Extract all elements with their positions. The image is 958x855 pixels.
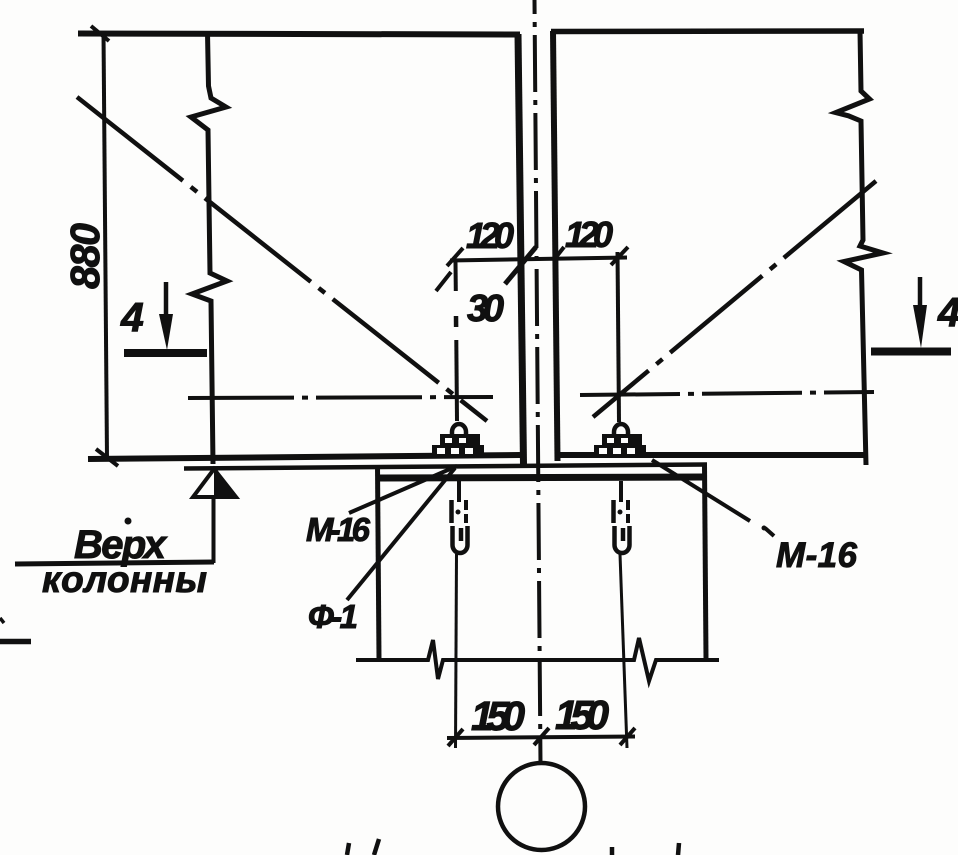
svg-text:880: 880 bbox=[62, 223, 108, 289]
anchor bolt left extension line bbox=[456, 554, 457, 748]
anchor bolt left axis above nut bbox=[454, 262, 458, 291]
svg-text:4: 4 bbox=[120, 294, 144, 340]
weld symbol left arrow bbox=[164, 282, 169, 318]
node central member left edge bbox=[518, 34, 524, 465]
anchor bolt left hidden shank bbox=[449, 500, 454, 523]
svg-text:150: 150 bbox=[471, 693, 525, 739]
dimension 30 tick bbox=[436, 272, 451, 291]
leader М-16 right bbox=[652, 460, 750, 521]
dimension 150 left tick bbox=[448, 729, 463, 746]
node left column edge with break symbols bbox=[191, 33, 227, 464]
node right column edge with break symbols bbox=[836, 31, 883, 465]
partial caption glyph 2 bbox=[374, 839, 379, 855]
node column below plate left edge bbox=[378, 466, 380, 659]
node column below plate right edge bbox=[705, 465, 707, 659]
dimension 120 right tick bbox=[611, 247, 628, 265]
svg-text:М-16: М-16 bbox=[776, 536, 858, 575]
node horizontal axis chain line left bbox=[188, 397, 493, 398]
wire beam bottom flange left bbox=[88, 455, 520, 459]
wire column bottom line with break symbols bbox=[356, 638, 719, 681]
node diagonal brace axis right bbox=[593, 181, 876, 417]
dimension 120 center-right tick bbox=[553, 247, 564, 261]
dimension 150 right tick bbox=[620, 728, 635, 745]
level mark triangle bbox=[193, 469, 236, 497]
level mark vertical line bbox=[212, 497, 216, 563]
leader Ф-1 bbox=[347, 468, 455, 600]
node central member right edge bbox=[553, 31, 558, 461]
svg-text:4: 4 bbox=[937, 289, 958, 335]
svg-text:колонны: колонны bbox=[42, 559, 207, 600]
dimension 150 center tick bbox=[534, 728, 549, 745]
wire base plate bottom line bbox=[376, 477, 705, 478]
dimension 880 line bbox=[104, 33, 108, 459]
anchor bolt left nut stack bbox=[432, 424, 484, 457]
partial mark lower left tick bbox=[0, 618, 4, 623]
wire beam bottom flange right bbox=[558, 452, 866, 458]
wire beam bottom flange second line bbox=[184, 465, 707, 469]
partial caption glyph 4 bbox=[678, 843, 679, 855]
anchor bolt right extension line bbox=[620, 554, 627, 748]
anchor bolt right nut stack bbox=[594, 424, 646, 457]
wire top beam line left bbox=[78, 34, 520, 35]
stray dot bbox=[762, 526, 767, 531]
svg-text:М-16: М-16 bbox=[306, 511, 371, 548]
dimension 150 150 line bbox=[447, 737, 635, 739]
level mark horizontal line bbox=[15, 562, 214, 564]
partial caption glyph 3 bbox=[610, 847, 615, 855]
dimension 120 120 line bbox=[450, 258, 627, 261]
leader М-16 left bbox=[349, 466, 457, 513]
accent dot over е bbox=[125, 518, 132, 525]
dimension 880 bottom tick bbox=[96, 449, 118, 466]
anchor bolt right extension above nut bbox=[618, 252, 620, 422]
section mark circle bbox=[498, 763, 585, 850]
anchor bolt right hidden shank bbox=[611, 500, 616, 523]
partial mark lower left line bbox=[0, 639, 31, 645]
svg-text:Ф-1: Ф-1 bbox=[308, 598, 358, 635]
weld symbol right arrow bbox=[918, 277, 923, 308]
wire top beam line right bbox=[551, 28, 864, 34]
anchor bolt left sleeve bbox=[453, 526, 468, 553]
node diagonal brace axis left bbox=[77, 97, 487, 421]
partial caption glyph 1 bbox=[347, 843, 349, 855]
svg-text:120: 120 bbox=[466, 215, 514, 256]
svg-text:120: 120 bbox=[565, 214, 613, 255]
weld symbol right bar bbox=[871, 348, 951, 356]
svg-text:30: 30 bbox=[467, 288, 504, 330]
weld symbol left bar bbox=[124, 349, 207, 357]
dimension 120 center slash bbox=[505, 247, 536, 284]
anchor bolt right sleeve bbox=[615, 526, 630, 553]
node horizontal axis chain line right bbox=[580, 392, 874, 395]
svg-text:150: 150 bbox=[555, 692, 609, 738]
node central axis chain line bbox=[535, 0, 541, 764]
dimension 120 left tick bbox=[447, 248, 463, 266]
dimension 880 top tick bbox=[91, 26, 109, 41]
